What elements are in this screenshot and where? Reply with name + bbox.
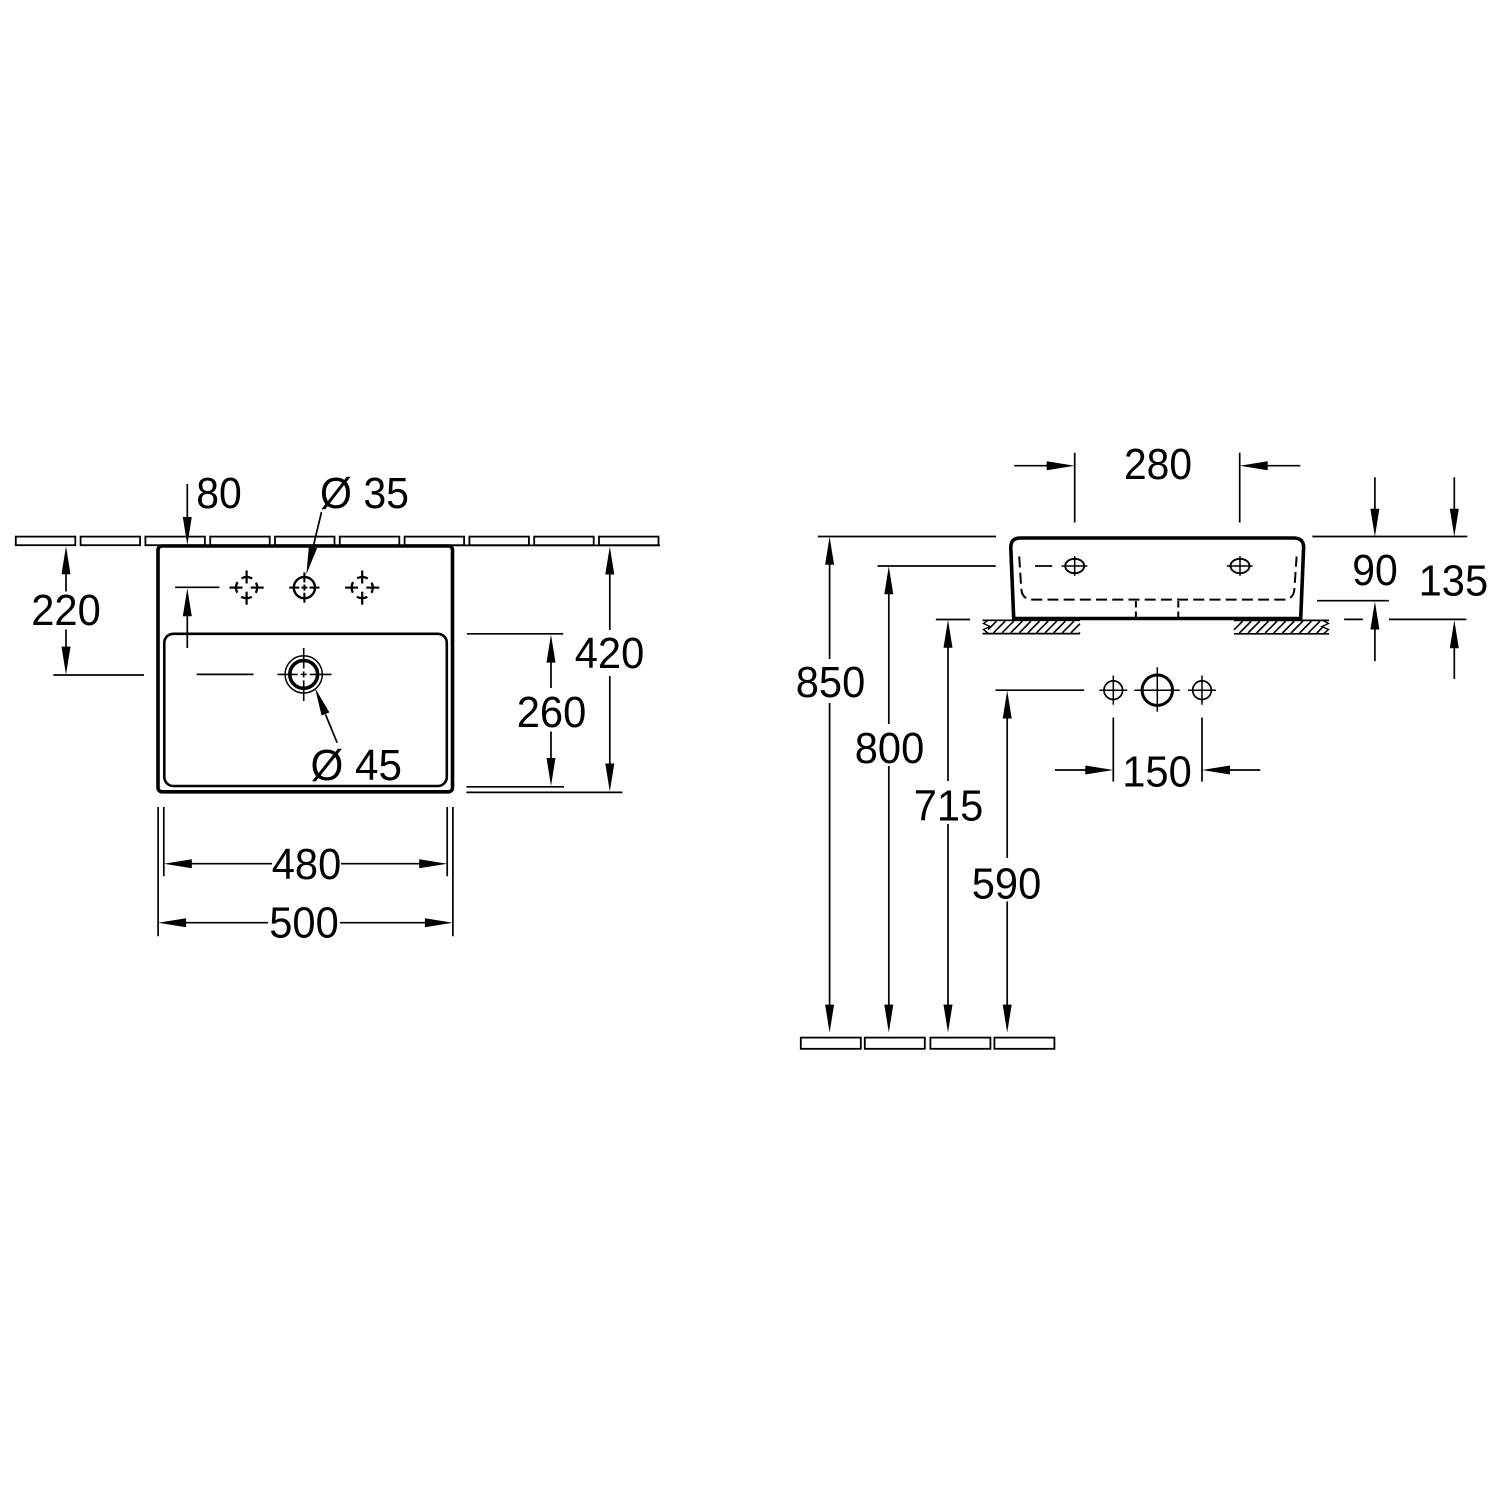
leader line Ø45: [315, 688, 337, 743]
svg-text:590: 590: [972, 860, 1042, 909]
dimension 90: [1317, 477, 1398, 661]
basin inner bowl (top view): [164, 634, 447, 786]
dimension 280: [1014, 440, 1300, 523]
basin outer rim (top view): [158, 546, 453, 792]
drain hole Ø45: [278, 648, 332, 701]
svg-text:80: 80: [196, 469, 242, 518]
svg-text:420: 420: [575, 629, 645, 678]
svg-text:220: 220: [31, 586, 101, 635]
dimension 800: [855, 566, 925, 1032]
fixing hole centre reference line: [878, 565, 996, 567]
mounting bracket right (hatched): [1234, 620, 1329, 633]
dimension 480: [164, 807, 447, 889]
svg-text:480: 480: [272, 840, 342, 889]
dimension 80: [175, 469, 242, 648]
supply hole left: [1099, 676, 1127, 705]
svg-text:135: 135: [1419, 557, 1489, 606]
dimension 420 top reference line: [452, 544, 660, 546]
mounting surface reference line (715): [936, 619, 970, 621]
supply hole reference line (590): [996, 689, 1085, 691]
mounting bracket left (hatched): [983, 620, 1081, 633]
dimension 850: [796, 537, 866, 1033]
dimension 500: [158, 807, 453, 948]
svg-text:715: 715: [914, 782, 984, 831]
dimension 420: [466, 547, 644, 793]
floor tile row: [801, 1038, 1055, 1049]
tap hole left (dashed): [230, 571, 264, 605]
dimension 260: [466, 634, 586, 787]
dimension 150: [1055, 718, 1260, 797]
dimension 715: [914, 620, 984, 1033]
svg-text:500: 500: [269, 899, 339, 948]
drain pipe hole centre: [1134, 667, 1180, 711]
svg-text:Ø 35: Ø 35: [320, 469, 409, 518]
interior dashed profile (side view): [1019, 557, 1296, 600]
dimension 135: [1344, 477, 1488, 679]
svg-text:280: 280: [1124, 440, 1192, 489]
svg-text:800: 800: [855, 724, 925, 773]
leader line Ø35: [306, 512, 321, 574]
dimension 220: [31, 546, 144, 675]
tap hole centre Ø35: [289, 573, 319, 603]
drain recess dashed lines: [1136, 601, 1178, 617]
svg-text:150: 150: [1122, 748, 1192, 797]
drain centre line: [197, 673, 254, 675]
supply hole right: [1188, 676, 1216, 705]
tap hole right (dashed): [345, 571, 379, 605]
fixing hole centre line dash: [1035, 565, 1052, 567]
basin profile (side view): [1011, 538, 1304, 619]
wall tile row (top view): [16, 537, 659, 546]
svg-text:90: 90: [1352, 546, 1398, 595]
svg-text:850: 850: [796, 658, 866, 707]
svg-text:260: 260: [517, 688, 587, 737]
svg-text:Ø 45: Ø 45: [311, 741, 403, 790]
fixing hole left (side view): [1062, 556, 1088, 576]
basin top reference line left: [818, 536, 996, 538]
basin top reference line right: [1312, 536, 1467, 538]
fixing hole right (side view): [1227, 556, 1253, 576]
dimension 590: [972, 691, 1042, 1033]
